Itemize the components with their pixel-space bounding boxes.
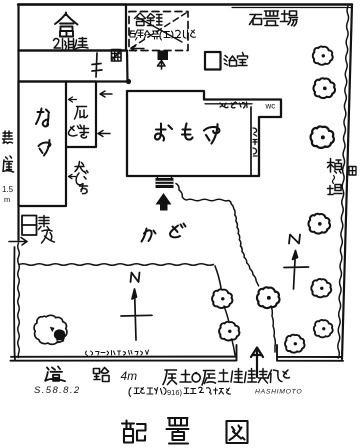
label note year line [129,387,231,397]
compass left N [131,273,140,283]
tree bottom mid [285,335,305,353]
shed gate black box [158,51,169,61]
garden fence corner diagonal [215,266,221,288]
boundary right wall outer [342,5,352,360]
label engawa tiny [220,102,247,108]
path line tree to tree left [224,306,229,322]
label concrete block tiny [86,350,149,356]
boundary right wall inner upper [338,6,349,358]
garden wavy fence top [19,264,213,266]
label toilet box chars [39,216,50,231]
main building labels [36,11,298,444]
naya barn building [19,82,67,207]
boundary left wall upper [17,5,19,241]
junction dot [126,79,131,84]
label inubuchi [69,174,76,178]
label kura [55,13,78,37]
label shed small note [129,30,196,40]
svg-text:S.58.8.2: S.58.8.2 [34,385,81,396]
compass left arrow [121,289,152,340]
small hatched window box [112,50,122,62]
tree right 3 [311,126,334,147]
toilet twin box [22,216,37,236]
boundary bottom wall left section [11,345,237,361]
bush center dot [51,327,54,331]
svg-text:4m: 4m [121,369,138,383]
boundary left wall lower inner wavy [18,243,20,358]
bath yokushitsu square [205,52,221,70]
bottom caption labels [34,350,302,397]
hisashi doma room [66,82,96,148]
tree path left lower [219,322,239,341]
arrow to doma lower [98,131,110,137]
tree right 4 [308,214,330,234]
small annotation labels [2,13,356,243]
svg-text:916): 916) [167,388,183,397]
pole mark [92,53,102,77]
label noudou 1.5m [3,131,13,144]
stepping path wavy [176,184,259,286]
boundary bottom wall right section [277,345,343,361]
tree right 6 [314,320,333,337]
label naya [36,109,50,156]
entrance arrow black [156,193,172,211]
label veranda tiny vertical [253,128,257,156]
omoya main house outline [127,91,281,176]
label yokushitsu [224,53,248,67]
label ta neighbor [349,167,356,176]
bush big bottom-left [34,315,67,344]
label kado [142,224,186,242]
tree right 2 [313,78,335,98]
tree path right [257,287,280,308]
label haichizu title [122,418,248,444]
path line tree to bottom right [271,306,275,352]
label 2-kai-date [54,38,89,50]
arrow to doma upper [100,91,112,97]
label ishiokiba [250,11,298,27]
shed gate up arrow [158,61,166,70]
path line tree to bottom left [232,340,235,355]
boundary left wall lower outer [14,247,15,361]
label makigaki hedge [328,159,342,174]
tree right 1 [313,46,333,64]
demolished shed dashed outline [129,12,188,51]
omoya veranda inner line top [205,103,252,105]
label shed soko text [135,13,163,26]
svg-text:wc: wc [265,102,276,111]
svg-text:HASHIMOTO: HASHIMOTO [255,389,302,396]
boundary top wall inner line [232,7,351,9]
label omoya [155,124,219,144]
demolished shed diagonal solid [137,17,182,42]
naya north wall [19,80,129,82]
entrance step hatched [156,176,174,188]
label douro 4m [45,367,65,382]
site entrance arrow bottom [251,348,263,378]
kura lean-to south wall [19,51,128,82]
omoya east veranda wall [250,107,252,175]
label note soil garden [163,370,177,385]
label hisashi doma [69,97,77,102]
svg-text:m: m [4,195,10,204]
warehouse kura building [19,5,127,51]
compass right N [289,235,300,244]
tree path left upper [212,289,232,308]
bush dark blob [55,330,65,342]
road entrance arrow left [9,238,27,246]
tree right 5 [311,279,331,297]
svg-text:1.5: 1.5 [2,185,14,194]
boundary top wall [18,3,352,5]
shed exit arrow left [131,46,144,51]
compass right arrow [284,251,309,290]
demolished shed diagonal dashed [131,13,186,48]
